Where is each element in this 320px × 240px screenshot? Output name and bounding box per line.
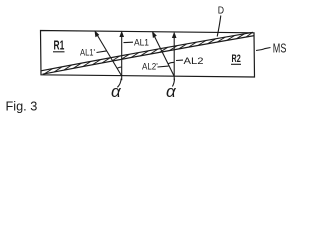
svg-text:AL1': AL1' [80,48,95,59]
svg-text:α: α [111,82,122,101]
svg-text:AL2: AL2 [184,56,204,67]
svg-text:R2: R2 [232,53,241,65]
svg-text:MS: MS [273,41,287,55]
svg-text:α: α [166,82,177,101]
svg-text:Fig. 3: Fig. 3 [6,98,38,113]
svg-text:R1: R1 [54,39,65,53]
svg-text:D: D [218,5,225,17]
svg-text:AL1: AL1 [134,37,149,48]
svg-text:AL2': AL2' [142,62,158,73]
